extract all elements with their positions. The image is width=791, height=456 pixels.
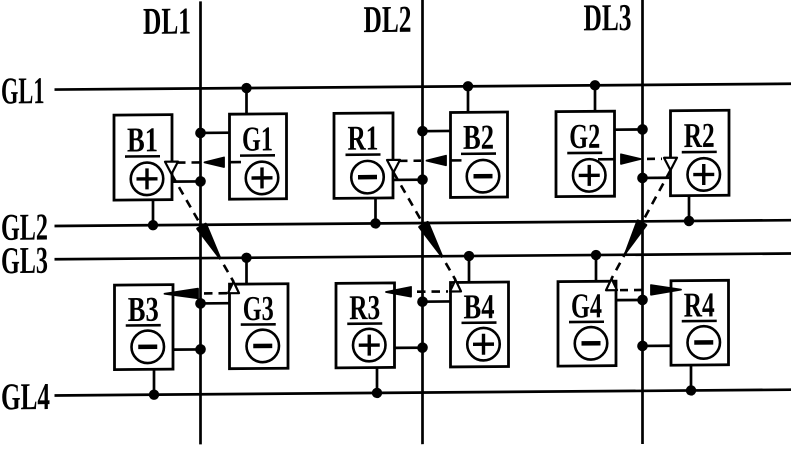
node G1 tap on DL1	[195, 127, 229, 138]
wire diagonal share R1 to B4	[394, 172, 456, 280]
pixel G4	[558, 281, 616, 366]
wire diagonal share B1 to G3	[172, 174, 234, 282]
node R2 tap on DL3	[637, 172, 670, 183]
node R1 tap on DL2	[393, 174, 428, 185]
node G2 tap on DL3	[615, 124, 648, 135]
svg-text:DL1: DL1	[143, 1, 191, 43]
wire R3 gate stub to GL4	[372, 367, 382, 398]
node notch on R2 (diagonal origin)	[664, 158, 677, 171]
node B3 tap on DL1	[173, 344, 206, 355]
node notch on G4 (diagonal target)	[606, 279, 617, 291]
svg-text:R4: R4	[684, 285, 715, 324]
node notch on G3 (diagonal target)	[228, 282, 239, 294]
pixel R1	[334, 113, 393, 198]
wire B2 gate stub to GL1	[463, 81, 473, 112]
arrow share into R3 (left)	[386, 287, 448, 297]
wire G1 gate stub to GL1	[241, 83, 251, 114]
svg-text:GL4: GL4	[1, 376, 50, 418]
wire B4 gate stub to GL3	[464, 251, 474, 283]
svg-text:B4: B4	[463, 287, 494, 326]
data line DL2	[421, 0, 424, 444]
svg-text:G2: G2	[569, 117, 600, 156]
pixel B1	[114, 115, 172, 200]
data line DL1	[199, 1, 202, 444]
node notch on B4 (diagonal target)	[450, 280, 461, 292]
wire B1 gate stub to GL2	[148, 200, 158, 231]
wire B3 gate stub to GL4	[149, 369, 159, 400]
pixel R2	[671, 110, 730, 195]
svg-text:GL3: GL3	[1, 240, 48, 282]
node B4 tap on DL2	[417, 296, 450, 307]
svg-text:DL3: DL3	[584, 0, 632, 39]
svg-text:GL1: GL1	[1, 70, 45, 112]
gate line GL2	[55, 220, 791, 226]
node G3 tap on DL1	[195, 298, 229, 309]
arrow G2 charge-share toward DL3 (right)	[598, 154, 662, 164]
wire G2 gate stub to GL1	[590, 80, 600, 111]
data line DL3	[641, 0, 644, 444]
wire G4 gate stub to GL3	[591, 250, 601, 282]
gate line GL1	[55, 84, 791, 90]
gate line GL4	[55, 390, 791, 396]
svg-text:DL2: DL2	[364, 0, 412, 41]
node G4 tap on DL3	[616, 295, 648, 306]
arrow G1 charge-share toward DL1 (left)	[177, 157, 241, 167]
svg-text:B3: B3	[128, 290, 159, 329]
svg-text:R3: R3	[349, 288, 380, 327]
pixel B3	[115, 285, 174, 370]
pixel G2	[556, 111, 615, 196]
svg-text:B1: B1	[127, 120, 158, 159]
arrow B2 charge-share toward DL2 (left)	[399, 156, 462, 166]
node B2 tap on DL2	[417, 126, 450, 137]
wire diagonal share R2 to G4	[612, 170, 671, 278]
pixel R3	[336, 283, 395, 368]
gate line GL3	[55, 253, 791, 259]
node notch on B1 (diagonal origin)	[165, 162, 178, 175]
pixel R4	[671, 280, 729, 365]
svg-text:R1: R1	[348, 119, 379, 158]
node B1 tap on DL1	[172, 176, 206, 187]
node R3 tap on DL2	[395, 342, 428, 353]
svg-text:G4: G4	[571, 286, 602, 325]
pixel B2	[451, 112, 508, 197]
arrow share into R4 (right)	[620, 285, 681, 295]
pixel G1	[230, 114, 287, 199]
svg-text:B2: B2	[463, 118, 494, 157]
wire G3 gate stub to GL3	[241, 253, 251, 285]
wire R2 gate stub to GL2	[684, 196, 694, 227]
svg-text:G3: G3	[243, 289, 274, 328]
pixel G3	[230, 284, 289, 369]
node notch on R1 (diagonal origin)	[387, 160, 400, 173]
svg-text:R2: R2	[684, 116, 715, 155]
pixel B4	[451, 282, 509, 367]
svg-text:G1: G1	[242, 119, 273, 158]
arrow share into B3 (left)	[165, 288, 228, 298]
wire R1 gate stub to GL2	[370, 198, 380, 229]
node R4 tap on DL3	[637, 340, 671, 351]
wire R4 gate stub to GL4	[686, 365, 696, 396]
